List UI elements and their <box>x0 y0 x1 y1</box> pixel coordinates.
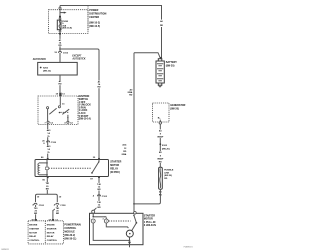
svg-text:ENGINE: ENGINE <box>47 225 56 227</box>
svg-text:FUSIBLE: FUSIBLE <box>164 170 174 172</box>
svg-text:MOTOR: MOTOR <box>29 232 37 234</box>
svg-text:BR: BR <box>56 213 60 215</box>
svg-text:CENTER: CENTER <box>89 16 99 19</box>
svg-text:RD: RD <box>129 94 133 96</box>
svg-text:RD: RD <box>123 151 127 153</box>
svg-text:STARTER: STARTER <box>47 228 57 231</box>
svg-text:C138: C138 <box>60 205 66 207</box>
svg-text:RD: RD <box>164 178 168 180</box>
svg-text:RD: RD <box>159 162 163 164</box>
svg-text:(8W-20): (8W-20) <box>162 148 170 150</box>
svg-text:BR: BR <box>97 207 101 209</box>
svg-text:RD: RD <box>58 45 62 47</box>
svg-text:S203: S203 <box>43 67 49 69</box>
svg-text:MOTOR: MOTOR <box>110 164 119 167</box>
svg-text:C126: C126 <box>51 142 57 144</box>
svg-text:RD: RD <box>160 25 164 27</box>
svg-text:3: 3 <box>103 219 104 221</box>
svg-text:RD: RD <box>58 84 62 86</box>
svg-text:BR: BR <box>46 188 50 190</box>
svg-text:BATTERY: BATTERY <box>166 61 177 64</box>
svg-text:RELAY: RELAY <box>47 235 54 238</box>
svg-text:RELAY: RELAY <box>29 235 36 238</box>
svg-text:LINK: LINK <box>164 172 169 174</box>
svg-text:8WAF: 8WAF <box>157 136 164 139</box>
svg-text:(IN PDC): (IN PDC) <box>110 171 120 174</box>
svg-text:(8W-30-11): (8W-30-11) <box>64 238 76 241</box>
svg-text:8WA: 8WA <box>122 153 127 156</box>
svg-text:CONTROL: CONTROL <box>47 240 58 242</box>
svg-text:C103: C103 <box>102 196 108 198</box>
svg-text:8WAF: 8WAF <box>157 157 164 160</box>
svg-text:BR: BR <box>34 213 38 215</box>
svg-text:STARTER: STARTER <box>110 160 121 163</box>
svg-text:AUTOSTICK: AUTOSTICK <box>32 59 46 61</box>
svg-text:MOTOR: MOTOR <box>47 232 55 234</box>
svg-text:EXCEPT: EXCEPT <box>72 55 82 57</box>
svg-text:(8W-10-5): (8W-10-5) <box>89 25 100 28</box>
svg-text:(8W-10-14): (8W-10-14) <box>79 118 91 121</box>
svg-text:FJ8W301: FJ8W301 <box>184 247 194 249</box>
svg-text:(8W-20): (8W-20) <box>164 175 172 177</box>
svg-text:(8W-20): (8W-20) <box>166 65 175 68</box>
svg-text:(8W-10-2): (8W-10-2) <box>89 22 100 25</box>
svg-text:S105: S105 <box>162 145 168 147</box>
svg-text:C103: C103 <box>63 52 69 54</box>
svg-text:RD: RD <box>97 87 101 89</box>
svg-text:(8W-10-8): (8W-10-8) <box>62 28 72 30</box>
svg-text:3 HOLD-IN: 3 HOLD-IN <box>144 224 156 227</box>
svg-text:AUTOSTICK: AUTOSTICK <box>71 58 85 60</box>
svg-text:C102: C102 <box>39 205 45 207</box>
svg-text:STARTER: STARTER <box>29 228 39 231</box>
svg-text:RELAY: RELAY <box>110 168 118 171</box>
svg-text:(8W-20): (8W-20) <box>170 107 179 110</box>
svg-text:BR: BR <box>97 189 101 191</box>
svg-text:1: 1 <box>89 219 90 221</box>
svg-text:(8W-15): (8W-15) <box>43 71 51 73</box>
svg-text:CONTROL: CONTROL <box>29 240 40 242</box>
svg-text:ENGINE: ENGINE <box>29 225 38 227</box>
